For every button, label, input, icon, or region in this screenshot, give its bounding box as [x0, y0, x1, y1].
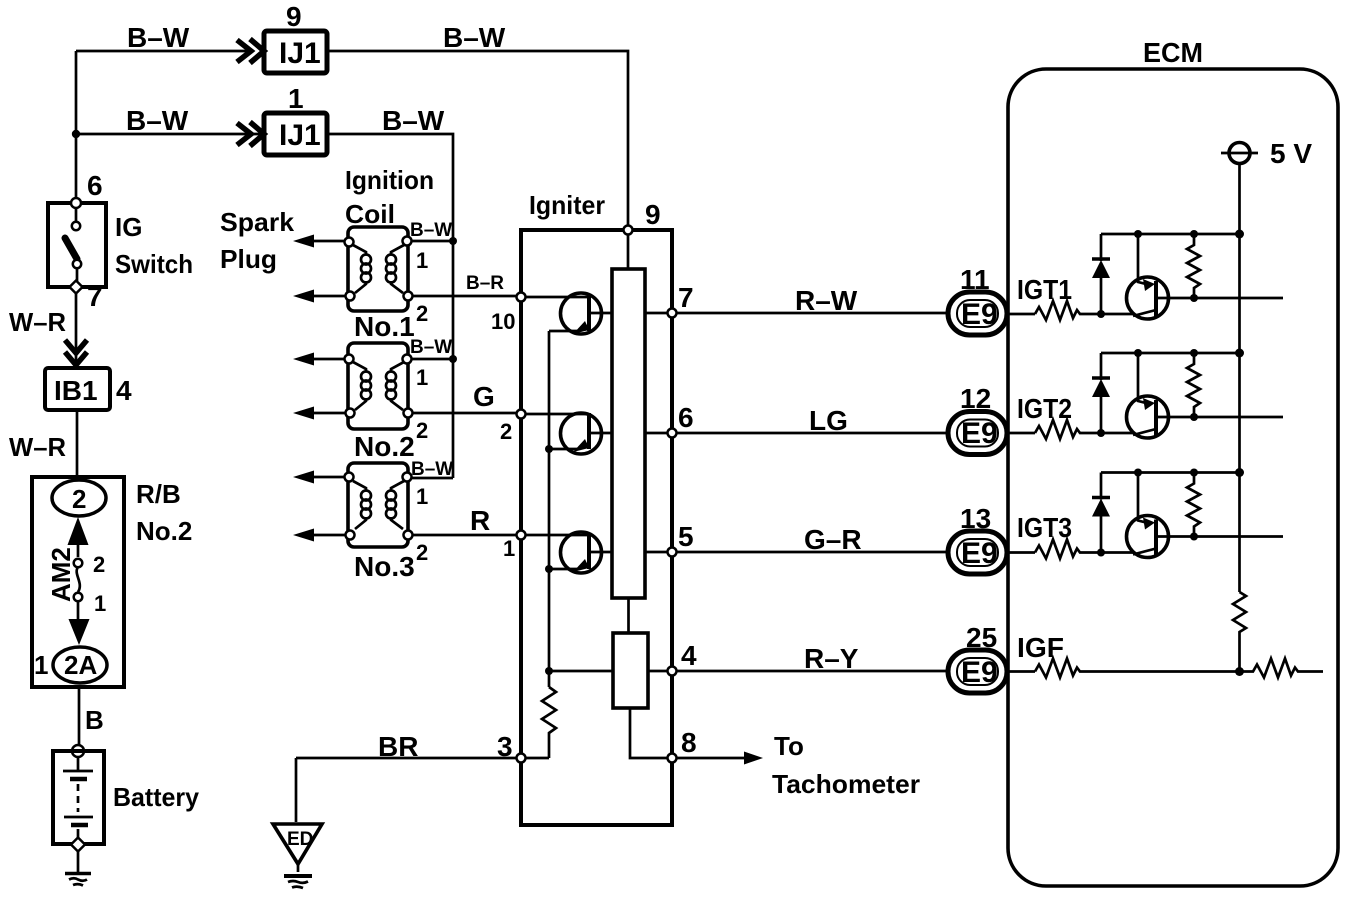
svg-text:B–W: B–W [126, 105, 189, 136]
output block [613, 633, 648, 708]
svg-text:11: 11 [960, 264, 990, 295]
pin 8 [668, 754, 677, 763]
SECTION: IG switch chain [9, 170, 200, 886]
fuse AM2 element [77, 567, 80, 592]
top rail segment [1101, 233, 1240, 236]
wire R/B to battery [78, 687, 81, 748]
SECTION: igniter [273, 190, 920, 888]
wire from IJ1(1) down coil feed [327, 134, 453, 478]
spark plug arrow (coil3 top) [293, 471, 314, 484]
resistor (IGT3 pull) [1187, 473, 1200, 537]
svg-text:4: 4 [681, 640, 697, 671]
arrow chevrons down into IB1 [65, 340, 87, 353]
svg-text:12: 12 [960, 383, 991, 414]
spark plug arrow (coil2 bottom) [293, 407, 314, 420]
ECM box [1008, 69, 1338, 886]
wire output block to pin8 [630, 708, 668, 758]
wire IGT3 input [1008, 551, 1035, 554]
battery bottom terminal diamond [71, 838, 85, 852]
svg-text:6: 6 [678, 402, 694, 433]
resistor (rail series) [1233, 592, 1246, 672]
wire IGT1 input [1008, 313, 1035, 316]
svg-text:ECM: ECM [1143, 37, 1203, 68]
connector E9 (11) [948, 264, 1007, 335]
wire pin9 to IC [627, 234, 630, 269]
svg-text:1: 1 [34, 650, 48, 680]
wire output block to rail [549, 670, 613, 673]
resistor (IGT2 pull) [1187, 353, 1200, 417]
resistor (IGT3 series) [1035, 540, 1133, 559]
node IGT1 diode junction [1097, 310, 1105, 318]
resistor (IGF right) [1240, 659, 1323, 678]
svg-text:9: 9 [645, 199, 661, 230]
spark plug arrow (coil2 top) [293, 353, 314, 366]
node IGF rail junction [1235, 667, 1244, 676]
wire IC to pin6 [645, 432, 668, 435]
svg-text:B–W: B–W [410, 220, 452, 241]
pin 1 [517, 531, 526, 540]
wire IC to pin7 [645, 312, 668, 315]
svg-text:5: 5 [678, 521, 694, 552]
ground (battery) [65, 872, 91, 876]
transistor Q2 [525, 413, 612, 454]
svg-text:9: 9 [286, 1, 302, 32]
svg-text:E9: E9 [961, 417, 998, 450]
wire vertical from row1 to IG switch [75, 51, 78, 198]
svg-text:1: 1 [416, 484, 428, 509]
resistor (igniter emitter) [542, 687, 556, 758]
resistor (IGT1 pull) [1187, 234, 1200, 298]
svg-text:2: 2 [416, 418, 428, 443]
svg-text:IGT2: IGT2 [1017, 393, 1072, 424]
resistor (IGT1 series) [1035, 301, 1133, 320]
svg-text:R–W: R–W [795, 285, 858, 316]
svg-text:R/B: R/B [136, 479, 181, 509]
svg-text:G: G [473, 381, 495, 412]
spark plug arrow (coil3 bottom) [293, 529, 314, 542]
svg-text:IJ1: IJ1 [279, 37, 321, 70]
svg-text:No.3: No.3 [354, 551, 415, 582]
pin 4 [668, 667, 677, 676]
relay block R/B No.2 box [32, 477, 124, 687]
output line IGT3 [1156, 535, 1283, 538]
svg-text:IGT1: IGT1 [1017, 274, 1072, 305]
diode D3 [1100, 473, 1103, 553]
resistor (IGF series) [1035, 659, 1240, 678]
wire pin7 to IB1 [75, 293, 78, 367]
connector E9 (13) [948, 503, 1007, 574]
spark plug arrow (coil1 top) [293, 235, 314, 248]
SECTION: top-left feed [72, 1, 628, 478]
5V rail [1238, 164, 1241, 593]
svg-text:W–R: W–R [9, 432, 66, 462]
svg-text:B–W: B–W [443, 22, 506, 53]
wire IC to output block [627, 598, 630, 633]
node IGT2 diode junction [1097, 429, 1105, 437]
connector IJ1 (1) [264, 113, 327, 155]
wire IC to pin5 [645, 551, 668, 554]
transistor Q1 [525, 293, 612, 334]
driver IC block [612, 269, 645, 598]
wire pin3 to resistor [525, 757, 549, 760]
IG switch lever [65, 238, 77, 259]
svg-text:B–W: B–W [127, 22, 190, 53]
IG switch contact circle upper [75, 208, 78, 222]
svg-text:BR: BR [378, 731, 418, 762]
wire R-Y pin4 to E9(25) [676, 670, 948, 673]
SECTION: ECM [1008, 37, 1338, 886]
svg-text:4: 4 [116, 375, 132, 406]
svg-text:Plug: Plug [220, 244, 277, 274]
terminal 2A ellipse [53, 647, 107, 683]
svg-text:E9: E9 [961, 298, 998, 331]
pin 7 diamond terminal [70, 281, 83, 294]
pin 3 [517, 754, 526, 763]
battery box [53, 751, 104, 844]
arrow chevrons into IJ1 row1 [237, 40, 251, 62]
svg-text:25: 25 [966, 622, 997, 653]
svg-text:IGF: IGF [1017, 632, 1064, 663]
pin 2 [517, 410, 526, 419]
svg-text:IGT3: IGT3 [1017, 512, 1072, 543]
5V supply symbol [1229, 143, 1250, 164]
svg-text:Igniter: Igniter [529, 190, 605, 220]
svg-text:No.2: No.2 [136, 516, 192, 546]
wire LG pin6 to E9(12) [676, 432, 948, 435]
svg-text:No.1: No.1 [354, 311, 415, 342]
svg-text:Spark: Spark [220, 207, 295, 237]
pin 6 [668, 429, 677, 438]
svg-text:Ignition: Ignition [345, 165, 434, 195]
wire battery to ground [77, 851, 80, 872]
output line IGT1 [1156, 297, 1283, 300]
svg-text:7: 7 [678, 282, 694, 313]
svg-text:No.2: No.2 [354, 431, 415, 462]
node junction row2 [72, 130, 80, 138]
svg-text:IG: IG [115, 212, 142, 242]
arrow chevrons into IJ1 row2 [237, 123, 251, 145]
fuse AM2 terminal 1 [74, 593, 83, 602]
svg-text:5 V: 5 V [1270, 138, 1312, 169]
wire BR to pin3 [296, 757, 516, 760]
svg-text:ED: ED [287, 829, 313, 850]
IG switch box [48, 203, 106, 287]
wire output block to pin4 [648, 670, 668, 673]
svg-text:2: 2 [416, 540, 428, 565]
svg-text:Battery: Battery [113, 782, 200, 812]
svg-text:2A: 2A [64, 650, 97, 680]
ignition coil No.2 [345, 343, 413, 429]
wire ED ground drop [295, 758, 298, 822]
connector IJ1 (9) [264, 31, 327, 73]
ignition coil No.3 [345, 463, 413, 547]
svg-text:B–W: B–W [382, 105, 445, 136]
svg-text:IB1: IB1 [54, 375, 98, 406]
diode D1 [1100, 234, 1103, 314]
top rail segment [1101, 352, 1240, 355]
wire coil3 pin2 to igniter pin1 (R) [412, 534, 516, 537]
pin 7 [668, 309, 677, 318]
svg-text:R–Y: R–Y [804, 643, 859, 674]
svg-text:6: 6 [87, 170, 103, 201]
svg-text:1: 1 [288, 83, 304, 114]
svg-text:13: 13 [960, 503, 991, 534]
IGT3 channel [1008, 468, 1283, 559]
node IGT3 diode junction [1097, 549, 1105, 557]
svg-text:Tachometer: Tachometer [772, 769, 920, 799]
connector E9 (12) [948, 383, 1007, 455]
resistor (IGT2 series) [1035, 420, 1133, 439]
svg-text:8: 8 [681, 727, 697, 758]
IGT2 channel [1008, 349, 1283, 440]
igniter box [521, 230, 672, 825]
svg-text:LG: LG [809, 405, 848, 436]
output line IGT2 [1156, 416, 1283, 419]
svg-text:7: 7 [87, 281, 103, 312]
svg-text:1: 1 [503, 536, 515, 561]
transistor Q3 [525, 532, 612, 573]
svg-text:2: 2 [72, 484, 86, 514]
wire IB1 to R/B [76, 410, 79, 477]
spark plug arrow (coil1 bottom) [293, 290, 314, 303]
wire B-W row1 [76, 50, 250, 53]
svg-text:B–R: B–R [466, 273, 504, 294]
wire coil2 pin1 to feed [411, 358, 453, 361]
battery top terminal [72, 745, 84, 757]
IGF channel [1008, 632, 1323, 678]
svg-text:Coil: Coil [345, 199, 395, 229]
svg-text:10: 10 [491, 309, 515, 334]
connector IB1 [45, 368, 110, 410]
svg-text:R: R [470, 505, 490, 536]
SECTION: coils [220, 165, 516, 582]
svg-text:E9: E9 [961, 656, 998, 689]
svg-text:1: 1 [416, 365, 428, 390]
transistor (IGT3) [1127, 516, 1169, 558]
up arrow inside R/B [68, 517, 89, 545]
svg-text:1: 1 [94, 591, 106, 616]
IGT1 channel [1008, 230, 1283, 321]
svg-text:B–W: B–W [410, 337, 452, 358]
svg-text:E9: E9 [961, 537, 998, 570]
wire G-R pin5 to E9(13) [676, 551, 948, 554]
svg-text:Switch: Switch [115, 249, 193, 279]
svg-text:B: B [85, 705, 104, 735]
transistor (IGT2) [1127, 396, 1169, 438]
svg-text:To: To [774, 731, 804, 761]
ignition coil No.1 [345, 227, 413, 311]
wire coil2 pin2 to igniter pin2 (G) [412, 412, 516, 415]
wire from IJ1(9) to igniter pin 9 [327, 51, 628, 226]
battery cells [77, 757, 80, 770]
emitter common rail [548, 331, 551, 687]
wire R-W pin7 to E9(11) [676, 312, 948, 315]
wire pin8 to tachometer arrow [676, 757, 748, 760]
svg-text:2: 2 [500, 419, 512, 444]
diode D2 [1100, 353, 1103, 433]
wire B-W row2 [76, 133, 262, 136]
terminal 2 ellipse [52, 480, 106, 516]
pin 6 terminal [71, 198, 81, 208]
wire coil1 pin1 to feed [411, 240, 453, 243]
svg-text:1: 1 [416, 248, 428, 273]
ground ED triangle [273, 824, 322, 864]
top rail segment [1101, 471, 1240, 474]
SECTION: middle rows [676, 264, 1007, 693]
wire coil3 pin1 to feed [411, 477, 453, 480]
svg-text:W–R: W–R [9, 307, 66, 337]
IG switch contact circle lower [73, 260, 81, 268]
down arrow inside R/B [77, 601, 80, 622]
pin 9 [624, 226, 633, 235]
wire IGF input [1008, 670, 1035, 673]
svg-text:G–R: G–R [804, 524, 862, 555]
wire coil1 pin2 to igniter pin10 (B-R) [412, 295, 516, 298]
pin 5 [668, 548, 677, 557]
svg-text:AM2: AM2 [46, 547, 76, 602]
fuse AM2 terminal 2 [74, 559, 83, 568]
svg-text:2: 2 [416, 301, 428, 326]
svg-text:IJ1: IJ1 [279, 119, 321, 152]
connector E9 (25) [948, 622, 1007, 693]
svg-text:2: 2 [93, 552, 105, 577]
wire IGT2 input [1008, 432, 1035, 435]
transistor (IGT1) [1127, 277, 1169, 319]
pin 10 [517, 293, 526, 302]
